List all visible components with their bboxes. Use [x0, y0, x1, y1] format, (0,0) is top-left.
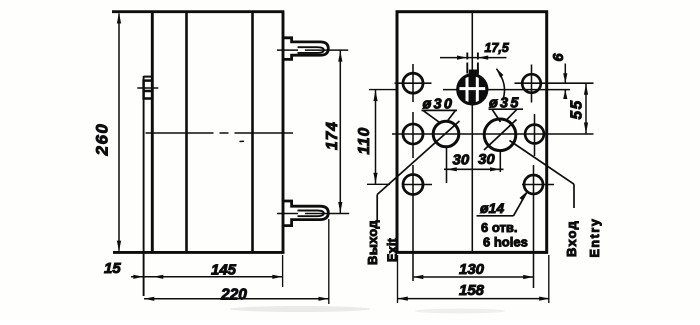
svg-text:6 holes: 6 holes — [483, 235, 528, 250]
top nipple (outlet port side view) — [284, 38, 329, 60]
hole bottom-left — [403, 175, 423, 195]
Entry leader — [510, 141, 575, 185]
dim 15/145 line — [131, 276, 283, 278]
145 right extension — [282, 255, 284, 287]
svg-text:158: 158 — [459, 282, 485, 299]
svg-text:Entry: Entry — [588, 218, 602, 258]
left fitting inner line — [144, 90, 153, 93]
svg-text:6: 6 — [551, 53, 567, 62]
body horizontal centerline (dash-dot) — [146, 132, 294, 134]
top row centerline left arm — [395, 82, 432, 84]
plate outline — [397, 12, 547, 253]
hole mid-left — [403, 124, 423, 144]
hole top-left — [403, 73, 423, 93]
Exit leader — [377, 121, 459, 195]
port hole d30 — [433, 121, 459, 147]
bottom nipple (side view) — [284, 201, 329, 226]
dim 158 — [398, 298, 550, 300]
inner panel line 2 — [251, 12, 254, 253]
dim 220 line — [144, 298, 329, 300]
left fitting top cap — [144, 76, 153, 78]
dim 174 line — [339, 50, 341, 213]
svg-text:30: 30 — [478, 151, 495, 168]
body left edge — [151, 11, 154, 254]
dim 17,5 line — [440, 57, 507, 59]
d35 diagonal (leader through) — [484, 120, 517, 151]
plate vertical centerline — [471, 12, 473, 253]
center hole horizontal centerline — [443, 89, 570, 91]
hole bottom-right — [524, 175, 543, 194]
center hole centerline left extension — [369, 89, 397, 91]
dim 6 right — [564, 64, 566, 84]
svg-text:17,5: 17,5 — [485, 41, 510, 55]
svg-text:110: 110 — [356, 127, 373, 155]
left fitting body box — [144, 81, 153, 99]
body right edge — [282, 11, 285, 254]
top row centerline right arm — [515, 82, 594, 84]
bottom row arm left — [403, 184, 432, 186]
svg-text:30: 30 — [453, 152, 470, 169]
220 right extension (nipple tip) — [328, 219, 330, 304]
top nipple inner bore — [298, 47, 324, 53]
center dark hole (filter) — [456, 73, 488, 105]
body top edge with left extension — [112, 10, 284, 13]
hole top-right — [522, 74, 541, 93]
curved arrow — [497, 69, 505, 100]
dim 55 — [585, 83, 587, 134]
dim 30 30 — [444, 168, 504, 170]
dim 110 — [375, 90, 377, 185]
d30 extension down — [446, 148, 448, 184]
svg-text:145: 145 — [211, 262, 237, 279]
svg-text:220: 220 — [220, 287, 247, 304]
bottom row left extension (110 dim) — [367, 183, 390, 185]
svg-text:Выход: Выход — [365, 220, 380, 265]
svg-text:6 отв.: 6 отв. — [481, 220, 517, 235]
svg-text:15: 15 — [104, 260, 121, 277]
svg-text:ø14: ø14 — [480, 200, 504, 216]
dim 130 — [413, 276, 534, 278]
hole mid-right — [525, 125, 544, 144]
svg-text:260: 260 — [93, 123, 112, 157]
svg-text:174: 174 — [324, 121, 341, 150]
bottom row arm right — [522, 184, 554, 186]
dim 260 line — [118, 14, 120, 251]
faint scan smudges — [230, 306, 370, 312]
middle row centerline — [392, 133, 594, 135]
svg-text:55: 55 — [569, 99, 586, 119]
top nipple centerline — [277, 49, 348, 51]
d35 extension down — [499, 151, 501, 172]
svg-text:130: 130 — [459, 261, 485, 278]
body bottom edge with left extension — [113, 251, 285, 254]
small centerline dot below — [240, 140, 245, 142]
inner panel line 1 — [185, 12, 188, 253]
bottom nipple centerline — [277, 213, 349, 215]
port hole d35 — [484, 119, 516, 151]
left fitting vertical (face) line, continues down as 15-dim extension — [143, 76, 145, 296]
bottom nipple inner bore — [298, 211, 324, 217]
svg-text:Вход: Вход — [564, 220, 579, 257]
slot guide lines above — [466, 53, 468, 74]
left fitting centerline — [137, 87, 158, 89]
